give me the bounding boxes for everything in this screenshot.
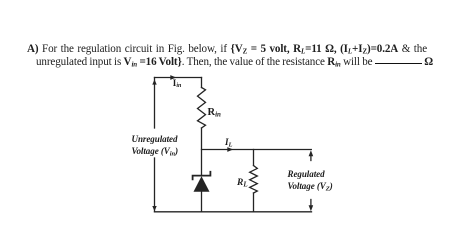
wire: left vertical upper segment	[154, 78, 156, 129]
resistor Rin zigzag	[198, 88, 206, 129]
zener diode D1 cathode bar with bent ends	[193, 172, 211, 180]
arrowhead: regulated voltage down arrow	[309, 205, 314, 211]
wire: RL branch bottom lead	[253, 193, 255, 212]
arrowhead: up arrow on left wire (Vin polarity)	[152, 79, 156, 84]
svg-text:Unregulated: Unregulated	[132, 134, 179, 144]
svg-text:Voltage (VZ): Voltage (VZ)	[288, 181, 333, 193]
wire: left vertical lower segment	[154, 158, 156, 212]
wire: Rin bottom lead down through IL node to zener cathode	[201, 128, 203, 175]
arrowhead: Iin current arrow on top wire	[170, 75, 176, 80]
arrowhead: regulated voltage up arrow	[309, 150, 314, 156]
arrowhead: down arrow at bottom of left wire	[152, 206, 156, 211]
arrow shaft: regulated voltage down arrow	[310, 200, 312, 206]
wire: zener anode lead to bottom rail	[201, 192, 203, 212]
question text line 2	[36, 55, 433, 68]
wire: RL branch top lead	[253, 150, 255, 166]
svg-text:Regulated: Regulated	[287, 169, 326, 179]
resistor RL zigzag	[250, 166, 258, 194]
arrowhead: IL current arrow	[227, 147, 233, 152]
wire: IL horizontal rail to the right	[202, 149, 312, 151]
svg-text:Voltage (Vin): Voltage (Vin)	[132, 146, 179, 158]
wire: bottom horizontal rail	[155, 211, 312, 213]
wire: Rin branch top lead	[201, 78, 203, 88]
svg-text:Iin: Iin	[173, 78, 182, 89]
svg-text:RL: RL	[236, 178, 248, 189]
question text line 1	[27, 44, 427, 55]
svg-text:IL: IL	[224, 137, 233, 149]
arrow shaft: regulated voltage up arrow	[310, 156, 312, 161]
wire: top horizontal from Vin+ corner to Rin branch	[155, 77, 202, 79]
svg-text:Rin: Rin	[208, 107, 222, 119]
zener diode D1 anode triangle	[194, 176, 210, 192]
